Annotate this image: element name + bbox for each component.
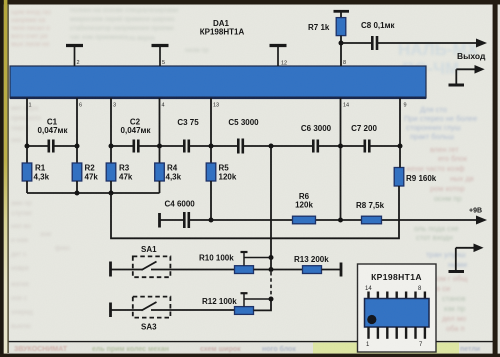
- resistor R5: [206, 146, 216, 220]
- yellow bleed patch bottom right: [313, 343, 459, 354]
- node pin14/rail: [338, 218, 343, 223]
- node branch/R10 row: [269, 267, 274, 272]
- wire R12 up to node: [254, 299, 272, 310]
- resistor R2: [72, 146, 82, 193]
- wire pin 3 down: [110, 98, 112, 146]
- node pin3/C2: [109, 144, 114, 149]
- capacitor C6: [271, 140, 341, 153]
- frame left yellow stripe: [4, 0, 8, 357]
- label R6: [295, 192, 313, 210]
- resistor R12: [235, 307, 254, 315]
- wire R13 to terminal: [322, 269, 342, 271]
- terminal bar R13: [340, 263, 343, 277]
- IC package pins top: [369, 292, 425, 299]
- IC pin row labels bottom: [366, 342, 423, 348]
- switch SA3: [133, 297, 234, 318]
- node gang/R12: [269, 297, 274, 302]
- terminal bar SA1: [109, 262, 112, 277]
- resistor R7 with top ground: [334, 11, 350, 43]
- supply rail wire to +9V: [211, 216, 487, 225]
- wire C8 to output arrow: [378, 39, 487, 48]
- label R5: [219, 164, 237, 182]
- ground pin 5 (top): [152, 46, 169, 67]
- capacitor C4: [160, 212, 212, 228]
- node R7/C8 junction: [339, 41, 344, 46]
- node branch/tap: [269, 255, 274, 260]
- capacitor C7: [341, 140, 401, 153]
- node pin4/C2/C3: [157, 144, 162, 149]
- label R4: [166, 164, 182, 182]
- node R2/bus: [75, 191, 80, 196]
- wire pin 9 down: [399, 98, 401, 146]
- resistor R4: [155, 146, 165, 193]
- node R5/C4: [209, 218, 214, 223]
- resistor R6: [293, 216, 316, 224]
- tap terminal R12: [241, 293, 272, 306]
- label R3: [119, 164, 133, 182]
- frame left border: [0, 0, 4, 357]
- wire SA1 input: [111, 269, 143, 271]
- switch SA1: [133, 256, 234, 277]
- frame bottom border: [0, 354, 500, 357]
- wire SA3 input: [111, 309, 143, 311]
- wire pin 14 down: [340, 98, 342, 220]
- wire junction to C8: [341, 42, 371, 44]
- IC package outline box: [358, 264, 437, 352]
- label C1: [38, 118, 69, 136]
- node pin13/C3/C5: [209, 144, 214, 149]
- wire R10 to R13: [254, 269, 303, 271]
- frame top border: [0, 0, 500, 5]
- terminal bar SA3: [109, 303, 112, 318]
- label C2: [121, 118, 152, 136]
- wire pin 13 down: [210, 98, 212, 146]
- node pin6/C1: [75, 144, 80, 149]
- IC pin row labels top: [365, 286, 422, 292]
- capacitor C5: [211, 139, 271, 154]
- resistor R8: [362, 216, 382, 224]
- label R1: [34, 164, 50, 182]
- label R2: [85, 164, 99, 182]
- dashed gang link: [270, 272, 272, 297]
- frame left inner line: [7, 4, 8, 353]
- capacitor C2: [111, 140, 160, 153]
- wire bus down to SA feed: [111, 186, 399, 238]
- vertical branch node wire: [270, 146, 272, 258]
- resistor R3: [106, 146, 116, 193]
- node pin1/C1: [25, 144, 30, 149]
- ground with arrow (lower right): [449, 244, 484, 272]
- wire pin 1 down: [26, 98, 28, 146]
- tap terminal R10: [241, 252, 272, 266]
- resistor R10: [235, 266, 254, 274]
- capacitor C8: [372, 36, 377, 50]
- wire pin 8 to R7 junction: [340, 43, 342, 66]
- capacitor C3: [160, 140, 212, 153]
- terminal bar C4 input: [158, 213, 161, 228]
- resistor R1: [22, 146, 32, 193]
- figure separator line: [8, 341, 493, 343]
- ground pin 2 (top): [66, 46, 83, 67]
- resistor R13: [303, 266, 322, 274]
- IC package pins bottom: [369, 327, 425, 339]
- node C5/C6 branch: [269, 144, 274, 149]
- node pin9/C7/R9: [398, 144, 403, 149]
- capacitor C1: [27, 140, 77, 153]
- ground pin 12 (top): [270, 46, 287, 67]
- node pin14/C6/C7: [338, 144, 343, 149]
- node R3/bus: [109, 191, 114, 196]
- label DA1: [200, 19, 245, 37]
- resistor R9: [394, 146, 404, 186]
- resistor bottom bus: [27, 192, 160, 194]
- ground with arrow (output common): [449, 65, 485, 85]
- wire pin 4 down: [159, 98, 161, 146]
- chip DA1 body: [10, 66, 426, 99]
- frame right border: [493, 0, 498, 357]
- bottom bleed text band: [14, 345, 480, 353]
- IC pin1 marker dot: [367, 315, 376, 324]
- wire branch between nodes: [270, 258, 272, 272]
- IC package body: [365, 299, 430, 328]
- wire pin 6 down: [76, 98, 78, 146]
